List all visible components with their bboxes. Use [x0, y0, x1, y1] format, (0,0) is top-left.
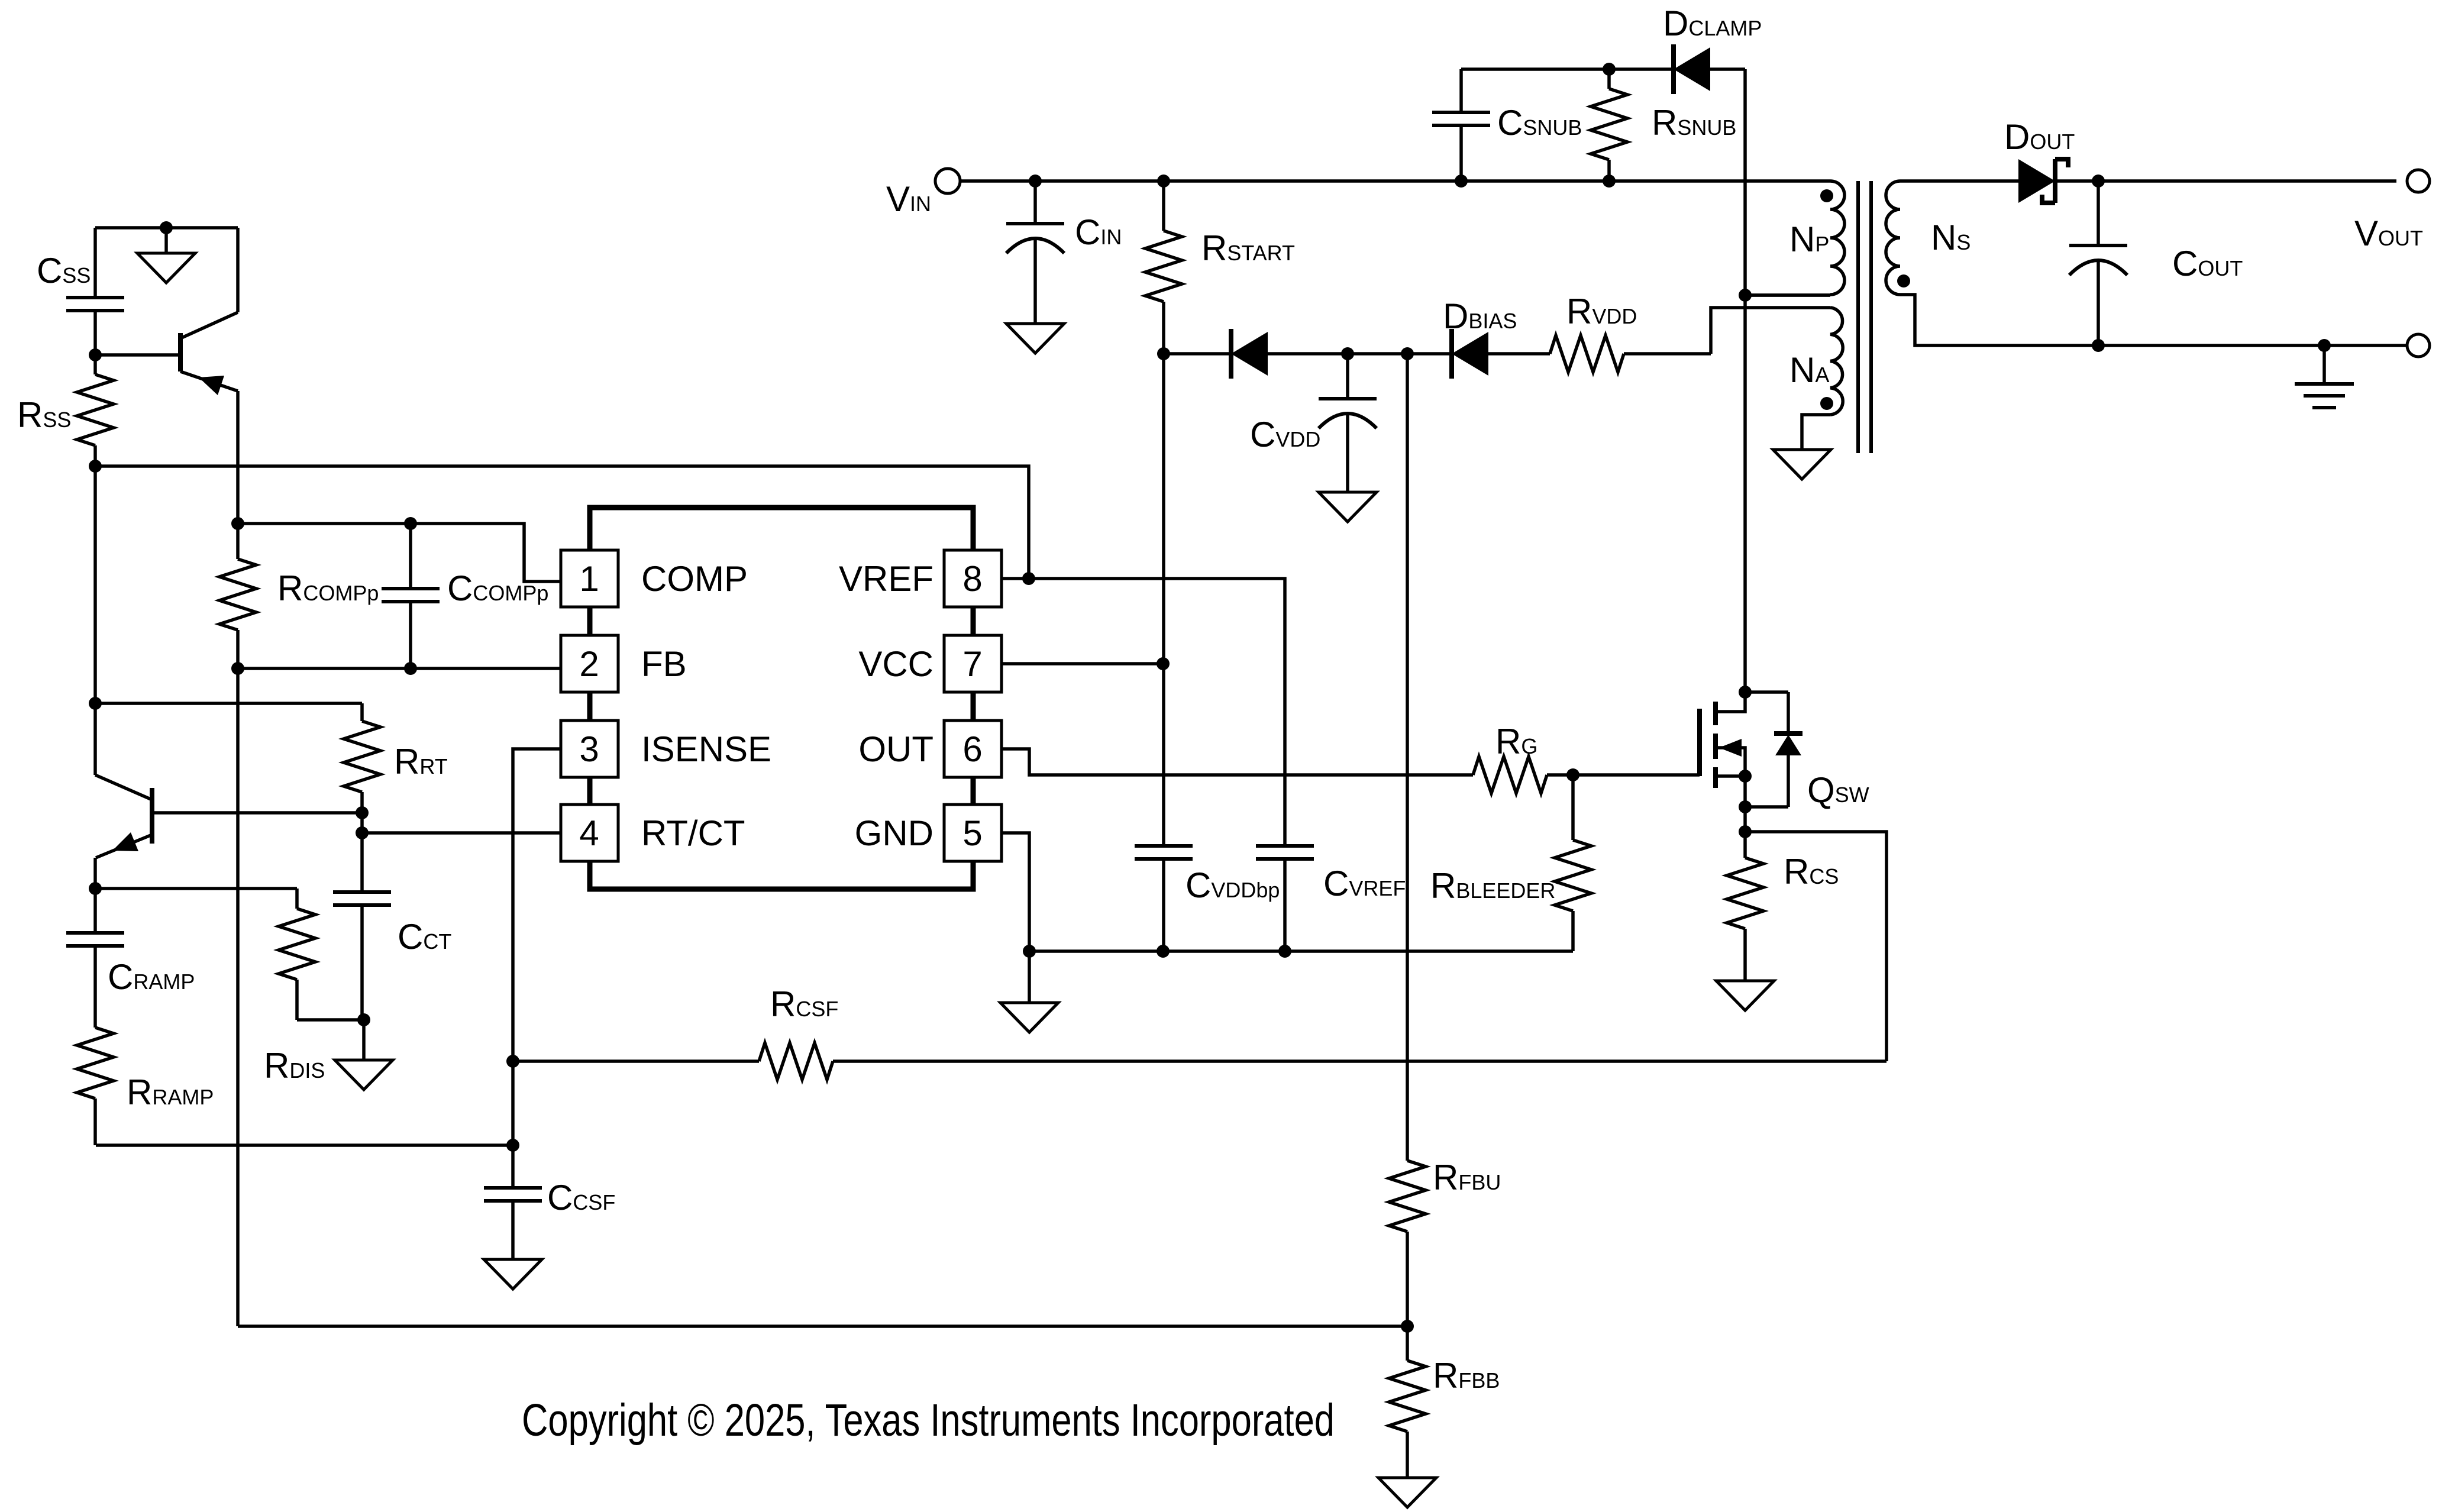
svg-text:VCC: VCC — [858, 644, 933, 684]
svg-text:7: 7 — [962, 644, 982, 684]
svg-text:4: 4 — [579, 813, 599, 853]
svg-text:5: 5 — [962, 813, 982, 853]
svg-text:RT/CT: RT/CT — [641, 813, 745, 853]
svg-text:8: 8 — [962, 559, 982, 599]
svg-text:1: 1 — [579, 559, 599, 599]
svg-text:2: 2 — [579, 644, 599, 684]
svg-text:ISENSE: ISENSE — [641, 729, 771, 769]
svg-text:COMP: COMP — [641, 559, 748, 599]
svg-text:GND: GND — [855, 813, 933, 853]
svg-text:FB: FB — [641, 644, 687, 684]
svg-text:OUT: OUT — [858, 729, 933, 769]
svg-text:6: 6 — [962, 729, 982, 769]
svg-text:3: 3 — [579, 729, 599, 769]
svg-text:Copyright © 2025, Texas Instru: Copyright © 2025, Texas Instruments Inco… — [522, 1395, 1335, 1446]
svg-text:VREF: VREF — [839, 559, 933, 599]
